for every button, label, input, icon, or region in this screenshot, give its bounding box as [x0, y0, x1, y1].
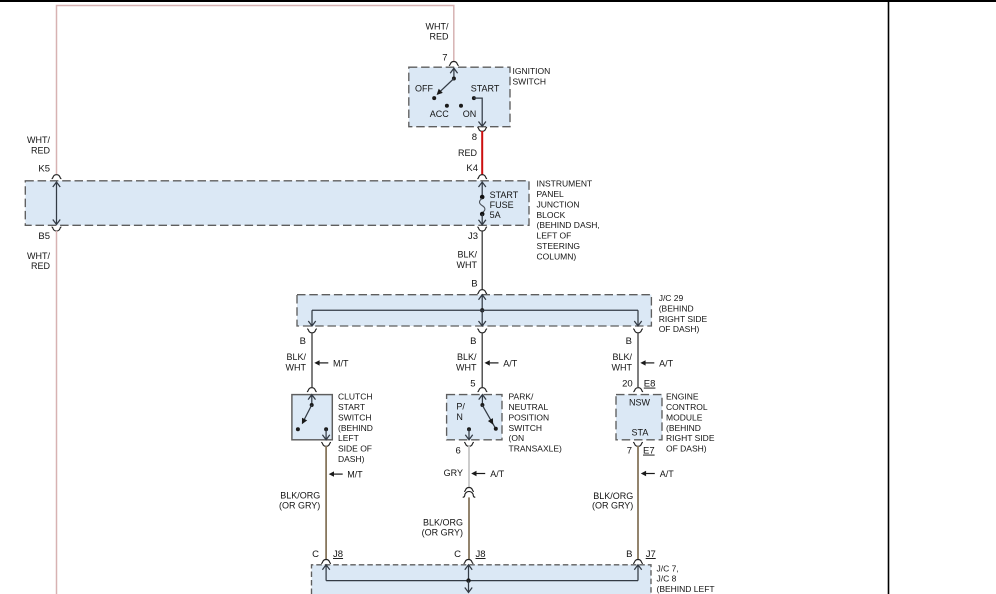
svg-text:RIGHT SIDE: RIGHT SIDE [659, 314, 708, 324]
svg-text:WHT: WHT [456, 363, 477, 373]
wire BLK/WHT left branch [311, 333, 313, 388]
svg-text:RED: RED [429, 31, 449, 41]
svg-text:NEUTRAL: NEUTRAL [509, 402, 549, 412]
J/C 29 center branch arrow [479, 310, 486, 326]
svg-text:J8: J8 [476, 549, 486, 560]
label P/N [456, 401, 465, 421]
svg-text:GRY: GRY [444, 468, 463, 478]
svg-text:N: N [456, 412, 463, 422]
wire RED from ignition switch to junction block K4 [481, 131, 483, 175]
svg-text:(ON: (ON [509, 433, 525, 443]
wire from START contact to pin 8 [474, 98, 486, 126]
svg-text:WHT/: WHT/ [27, 135, 50, 145]
svg-text:CONTROL: CONTROL [666, 402, 708, 412]
label START FUSE 5A [490, 190, 519, 220]
svg-text:DASH): DASH) [338, 454, 365, 464]
svg-text:B: B [626, 336, 632, 347]
connector into J/C7-8 right [633, 560, 643, 564]
svg-text:(BEHIND LEFT: (BEHIND LEFT [657, 584, 715, 594]
svg-text:WHT: WHT [612, 363, 633, 373]
svg-text:WHT: WHT [457, 260, 478, 270]
svg-text:J/C 29: J/C 29 [659, 293, 684, 303]
wire GRY [468, 446, 470, 488]
OFF contact [432, 96, 436, 100]
svg-text:INSTRUMENT: INSTRUMENT [537, 179, 593, 189]
svg-text:A/T: A/T [490, 469, 505, 479]
wire WHT/RED continuing down page [56, 231, 58, 594]
svg-text:20: 20 [622, 379, 633, 390]
svg-text:BLK/: BLK/ [286, 352, 306, 362]
svg-text:SWITCH: SWITCH [513, 77, 547, 87]
svg-text:WHT: WHT [286, 363, 307, 373]
svg-text:(BEHIND: (BEHIND [666, 423, 701, 433]
svg-text:J3: J3 [468, 231, 478, 242]
svg-text:7: 7 [627, 446, 632, 457]
label WHT/RED (left, above K5) [27, 135, 50, 156]
svg-text:IGNITION: IGNITION [513, 66, 551, 76]
svg-text:SWITCH: SWITCH [509, 423, 543, 433]
svg-text:C: C [454, 549, 461, 560]
clutch start switch description [338, 392, 373, 464]
connector B5 [52, 227, 62, 231]
svg-text:NSW: NSW [629, 398, 651, 408]
svg-text:BLK/ORG: BLK/ORG [423, 518, 463, 528]
svg-text:7: 7 [442, 52, 447, 63]
start fuse top terminal [480, 195, 485, 200]
label BLK/WHT right [612, 352, 633, 373]
J/C 7, J/C 8 box [312, 565, 652, 594]
wire BLK/ORG right [637, 446, 639, 559]
svg-text:JUNCTION: JUNCTION [537, 199, 580, 209]
A/T pointer center upper [490, 362, 499, 364]
svg-text:B: B [471, 279, 477, 290]
svg-text:8: 8 [472, 132, 477, 143]
svg-text:PANEL: PANEL [537, 189, 565, 199]
J/C 7-8 junction node [466, 578, 470, 582]
svg-text:BLK/: BLK/ [612, 352, 632, 362]
svg-text:COLUMN): COLUMN) [537, 251, 577, 261]
connector B center exit of J/C 29 [477, 329, 487, 333]
J/C 7-8 right entry arrow [634, 565, 641, 581]
ACC contact [445, 104, 449, 108]
svg-text:6: 6 [456, 446, 461, 457]
svg-text:RED: RED [31, 146, 51, 156]
wire WHT/RED from top-left to ignition switch pin 7 [57, 6, 454, 175]
start fuse element [480, 199, 485, 213]
J/C 7-8 internal bus [326, 580, 638, 582]
svg-text:B: B [626, 549, 632, 560]
svg-text:K4: K4 [466, 163, 478, 174]
park/neutral position switch box [447, 395, 502, 440]
J/C 7-8 description [657, 563, 715, 593]
svg-text:(BEHIND DASH,: (BEHIND DASH, [537, 220, 600, 230]
svg-text:PARK/: PARK/ [509, 392, 535, 402]
svg-text:J7: J7 [646, 549, 656, 560]
ignition switch box [409, 67, 510, 127]
svg-text:A/T: A/T [660, 469, 675, 479]
connector below P/N switch [464, 442, 474, 446]
svg-text:BLK/: BLK/ [457, 250, 477, 260]
M/T pointer left lower [334, 473, 343, 475]
clutch start switch box [292, 395, 332, 440]
connector into engine control module [633, 388, 643, 392]
ignition switch pivot contact [452, 77, 456, 81]
svg-text:LEFT: LEFT [338, 433, 359, 443]
J/C 29 internal bus [312, 309, 638, 311]
connector K5 [52, 175, 62, 179]
ON contact [459, 104, 463, 108]
svg-text:MODULE: MODULE [666, 412, 703, 422]
svg-text:C: C [312, 549, 319, 560]
svg-text:ON: ON [463, 109, 477, 119]
svg-text:J/C 7,: J/C 7, [657, 563, 679, 573]
svg-text:J8: J8 [333, 549, 343, 560]
wire BLK/ORG center [468, 497, 470, 559]
A/T pointer right upper [646, 362, 655, 364]
svg-text:START: START [490, 190, 519, 200]
clutch switch output arrow [322, 429, 329, 440]
svg-text:J/C 8: J/C 8 [657, 574, 677, 584]
svg-text:E7: E7 [643, 446, 655, 457]
M/T pointer left upper [320, 362, 329, 364]
connector into park/neutral switch [478, 388, 488, 392]
svg-text:TRANSAXLE): TRANSAXLE) [509, 444, 563, 454]
wire BLK/WHT from J3 to J/C 29 [481, 231, 483, 290]
svg-text:LEFT OF: LEFT OF [537, 231, 572, 241]
svg-text:START: START [338, 402, 365, 412]
svg-text:K5: K5 [38, 164, 50, 175]
svg-text:STA: STA [632, 428, 649, 438]
engine control module box [616, 395, 662, 440]
J/C 29 left branch arrow [308, 310, 315, 326]
connector into J/C7-8 center [464, 560, 474, 564]
wire BLK/WHT center branch [481, 333, 483, 388]
svg-text:OF DASH): OF DASH) [659, 324, 700, 334]
label BLK/WHT center [456, 352, 477, 373]
svg-text:M/T: M/T [333, 359, 349, 369]
connector into J/C7-8 left [321, 560, 331, 564]
label BLK/ORG (OR GRY) center [422, 518, 463, 538]
clutch switch lower-left contact [296, 427, 300, 431]
svg-text:WHT/: WHT/ [426, 22, 449, 32]
connector below ECM [633, 442, 643, 446]
clutch switch output contact [324, 427, 328, 431]
svg-text:RED: RED [458, 148, 478, 158]
J/C 7-8 left entry arrow [322, 565, 329, 581]
J/C 29 entry arrow [479, 295, 486, 311]
connector J3 [477, 227, 487, 231]
label BLK/ORG (OR GRY) left [279, 491, 320, 511]
svg-text:OF DASH): OF DASH) [666, 444, 707, 454]
svg-text:BLK/: BLK/ [457, 352, 477, 362]
ignition switch arrow to pin 7 [450, 68, 457, 78]
svg-text:ACC: ACC [430, 109, 450, 119]
svg-text:WHT/: WHT/ [27, 251, 50, 261]
start fuse bottom terminal [480, 212, 485, 217]
P/N switch output contact [467, 427, 471, 431]
junction block internal link K5-B5 (double arrow) [53, 182, 60, 225]
J/C 29 junction node [480, 308, 484, 312]
J/C 29 right branch arrow [634, 310, 641, 326]
svg-text:(OR GRY): (OR GRY) [422, 528, 463, 538]
svg-text:SIDE OF: SIDE OF [338, 444, 372, 454]
connector pin 8 of ignition switch [477, 127, 487, 131]
wire BLK/ORG left [325, 446, 327, 559]
ECM description [666, 392, 715, 454]
svg-text:BLK/ORG: BLK/ORG [280, 491, 320, 501]
fuse arrow at K4 entry [479, 182, 486, 197]
svg-text:B5: B5 [38, 231, 50, 242]
svg-text:FUSE: FUSE [490, 200, 514, 210]
clutch switch pivot contact [310, 403, 314, 407]
svg-text:RED: RED [31, 261, 51, 271]
START contact [472, 96, 476, 100]
connector B into J/C 29 [477, 290, 487, 294]
connector pin 7 of ignition switch [449, 62, 459, 66]
svg-text:SWITCH: SWITCH [338, 412, 372, 422]
svg-text:OFF: OFF [415, 83, 433, 93]
A/T pointer right lower [646, 473, 655, 475]
svg-text:E8: E8 [644, 379, 656, 390]
label WHT/RED (left, below B5) [27, 251, 50, 271]
svg-text:A/T: A/T [503, 359, 518, 369]
svg-text:BLK/ORG: BLK/ORG [593, 491, 633, 501]
svg-text:(OR GRY): (OR GRY) [279, 501, 320, 511]
J/C 7-8 center entry arrow [465, 565, 472, 581]
svg-text:(OR GRY): (OR GRY) [592, 501, 633, 511]
svg-text:B: B [470, 336, 476, 347]
svg-text:(BEHIND: (BEHIND [338, 423, 373, 433]
J/C 29 box [297, 295, 651, 326]
svg-text:5A: 5A [490, 210, 501, 220]
label BLK/WHT left [286, 352, 307, 373]
connector below clutch switch [321, 442, 331, 446]
svg-text:RIGHT SIDE: RIGHT SIDE [666, 433, 715, 443]
svg-text:START: START [471, 83, 500, 93]
connector K4 [477, 175, 487, 179]
A/T pointer center lower [476, 473, 485, 475]
svg-text:A/T: A/T [659, 359, 674, 369]
inline connector on center wire [464, 488, 474, 492]
connector into clutch start switch [307, 388, 317, 392]
svg-text:POSITION: POSITION [509, 412, 550, 422]
svg-text:B: B [300, 336, 306, 347]
P/N switch wiper arm [482, 405, 495, 428]
J/C 7-8 output stub arrow [465, 581, 472, 593]
ignition switch text [513, 66, 551, 87]
svg-text:P/: P/ [456, 401, 465, 411]
svg-text:5: 5 [470, 379, 475, 390]
connector B right exit of J/C 29 [633, 329, 643, 333]
svg-text:BLOCK: BLOCK [537, 210, 566, 220]
ignition switch wiper arm toward OFF [440, 79, 454, 92]
svg-text:M/T: M/T [347, 470, 363, 480]
label WHT/RED (top, near ignition switch) [426, 22, 449, 42]
svg-text:(BEHIND: (BEHIND [659, 303, 694, 313]
park/neutral description [509, 392, 563, 454]
junction block description text [537, 179, 600, 262]
svg-text:CLUTCH: CLUTCH [338, 392, 372, 402]
clutch start switch entry arrow [308, 395, 315, 405]
P/N switch right contact [494, 427, 498, 431]
instrument panel junction block box [25, 181, 529, 226]
label BLK/ORG (OR GRY) right [592, 491, 633, 511]
fuse arrow at J3 exit [479, 214, 486, 225]
J/C 29 description [659, 293, 708, 334]
P/N switch output arrow [465, 429, 472, 440]
connector B left exit of J/C 29 [307, 329, 317, 333]
P/N switch entry arrow [479, 395, 486, 405]
wire BLK/WHT right branch [637, 333, 639, 388]
svg-text:ENGINE: ENGINE [666, 392, 699, 402]
P/N switch pivot contact [480, 403, 484, 407]
label BLK/WHT (below J3) [457, 250, 478, 271]
clutch switch wiper arm [303, 405, 311, 421]
svg-text:STEERING: STEERING [537, 241, 580, 251]
